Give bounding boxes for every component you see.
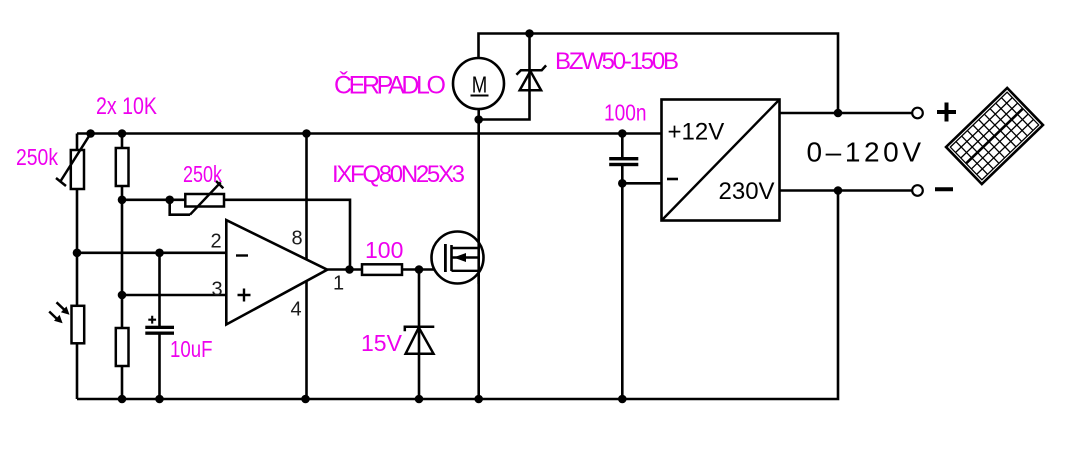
label 0-120V xyxy=(807,137,922,168)
wire bottom ground rail xyxy=(77,191,838,400)
svg-text:100n: 100n xyxy=(604,99,647,125)
node op-amp output junction xyxy=(345,265,354,274)
node zener gate junction xyxy=(415,265,424,274)
wire 100n capacitor branch upper xyxy=(621,134,624,158)
zener diode D1 15V triangle xyxy=(406,328,434,354)
node motor bottom junction xyxy=(474,115,483,124)
node output minus junction xyxy=(834,186,843,195)
node ground rail pin4 xyxy=(301,395,310,404)
svg-text:15V: 15V xyxy=(361,330,403,356)
svg-text:0–120V: 0–120V xyxy=(807,137,922,168)
photoresistor LDR body xyxy=(72,306,85,344)
MOSFET Q1 body tap with arrow xyxy=(452,256,479,258)
MOSFET Q1 circle xyxy=(432,232,484,284)
wire left branch vertical (pot1/LDR) xyxy=(76,134,79,400)
wire motor bottom to BZW diode xyxy=(479,70,530,119)
node 100n on +12V rail xyxy=(618,129,627,138)
wire pot2 wiper connection xyxy=(170,200,190,215)
wire op-amp power pin8/pin4 vertical xyxy=(305,134,308,400)
wire supply box minus lead xyxy=(622,182,661,185)
potentiometer R4 wiper arrow xyxy=(190,181,223,215)
pin label 2 xyxy=(211,231,222,253)
svg-text:4: 4 xyxy=(291,299,302,321)
power supply box diagonal xyxy=(663,101,779,220)
pin label 4 xyxy=(291,299,302,321)
MOSFET Q1 gate bar xyxy=(444,244,447,272)
wire feedback from 10K junction through pot2 to op-amp output xyxy=(122,200,350,270)
wire op-amp pin2 input xyxy=(77,252,226,255)
node ground rail 10uF xyxy=(155,395,164,404)
svg-text:250k: 250k xyxy=(183,161,222,187)
TVS diode D2 triangle xyxy=(520,71,541,90)
svg-text:100: 100 xyxy=(365,237,403,263)
svg-text:250k: 250k xyxy=(16,144,58,170)
pin label 1 xyxy=(333,273,344,295)
node ground rail 100n xyxy=(618,395,627,404)
svg-text:BZW50-150B: BZW50-150B xyxy=(555,48,679,75)
MOSFET Q1 drain-source line through circle xyxy=(477,231,480,284)
wire op-amp pin3 input xyxy=(122,294,226,297)
op-amp U1 inverting input minus mark xyxy=(236,254,248,256)
svg-text:IXFQ80N25X3: IXFQ80N25X3 xyxy=(332,161,465,188)
wire 10uF branch lower xyxy=(158,334,161,399)
node box minus junction xyxy=(618,179,627,188)
wire op-amp output to MOSFET gate xyxy=(327,268,445,271)
power supply minus mark xyxy=(667,178,678,181)
svg-text:230V: 230V xyxy=(719,178,775,205)
power supply label 230V xyxy=(719,178,775,205)
svg-text:2x 10K: 2x 10K xyxy=(96,93,157,120)
capacitor C2 100n plates xyxy=(609,157,638,160)
wire 100n capacitor branch lower xyxy=(621,166,624,399)
motor M1 letter xyxy=(472,72,488,98)
zener diode D1 15V cathode bar xyxy=(405,327,435,332)
svg-text:+12V: +12V xyxy=(668,119,725,146)
svg-text:ČERPADLO: ČERPADLO xyxy=(334,71,446,100)
power supply box U2 xyxy=(662,100,780,221)
resistor R5 100 body xyxy=(362,264,402,275)
wire top rail from motor to panel + terminal xyxy=(479,34,839,114)
op-amp U1 non-inverting input plus mark xyxy=(238,289,251,302)
node pin2 pot1 junction xyxy=(73,249,82,258)
capacitor C1 10uF plates xyxy=(145,326,174,329)
svg-text:M: M xyxy=(472,72,488,98)
potentiometer R4 250k body xyxy=(185,194,224,207)
svg-text:8: 8 xyxy=(292,228,303,250)
node op-amp pin8 on +12V rail xyxy=(302,129,311,138)
svg-text:2: 2 xyxy=(211,231,222,253)
photoresistor light arrow 2 xyxy=(49,312,58,321)
potentiometer R1 wiper arrow xyxy=(56,134,91,186)
terminal plus sign xyxy=(937,103,956,122)
node 10K top on +12V rail xyxy=(118,129,127,138)
node pin3 junction xyxy=(118,291,127,300)
pin label 8 xyxy=(292,228,303,250)
svg-text:1: 1 xyxy=(333,273,344,295)
pin label 3 xyxy=(212,279,223,301)
svg-text:10uF: 10uF xyxy=(170,336,213,362)
node 10uF top junction xyxy=(155,249,164,258)
photoresistor light arrow 1 xyxy=(57,302,66,311)
wire BZW top lead xyxy=(528,34,531,71)
terminal minus circle xyxy=(912,185,923,196)
op-amp U1 triangle xyxy=(226,220,327,324)
wire second branch vertical (10K resistors) xyxy=(121,134,124,400)
node ground rail source xyxy=(474,395,483,404)
wire +12V horizontal rail xyxy=(77,132,662,135)
node BZW top junction xyxy=(525,29,534,38)
MOSFET Q1 drain tap xyxy=(452,247,479,249)
capacitor C1 polarity plus mark xyxy=(148,316,156,324)
svg-text:3: 3 xyxy=(212,279,223,301)
motor M1 circle xyxy=(453,58,504,109)
resistor R3 10K body xyxy=(116,328,129,366)
solar panel xyxy=(946,88,1043,184)
wire 15V zener branch xyxy=(418,270,421,400)
terminal plus circle xyxy=(912,108,923,119)
node pot2 wiper junction xyxy=(165,196,174,205)
node output plus junction xyxy=(834,109,843,118)
TVS diode D2 BZW50-150B cathode bar with bends xyxy=(516,65,546,74)
wire output plus lead xyxy=(780,112,913,115)
node ground rail zener xyxy=(415,395,424,404)
terminal minus sign xyxy=(935,187,953,191)
wire motor drain line vertical xyxy=(477,109,480,399)
potentiometer R1 250k body xyxy=(71,150,84,189)
node 10K bottom feedback junction xyxy=(118,196,127,205)
MOSFET Q1 channel bar xyxy=(450,245,453,271)
resistor R2 10K body xyxy=(116,148,129,186)
wire 10uF branch upper xyxy=(158,253,161,326)
node pot1 wiper on +12V rail xyxy=(86,129,95,138)
MOSFET Q1 source tap xyxy=(452,270,479,272)
wire output minus lead xyxy=(780,189,913,192)
node ground rail 10K xyxy=(118,395,127,404)
power supply label +12V xyxy=(668,119,725,146)
